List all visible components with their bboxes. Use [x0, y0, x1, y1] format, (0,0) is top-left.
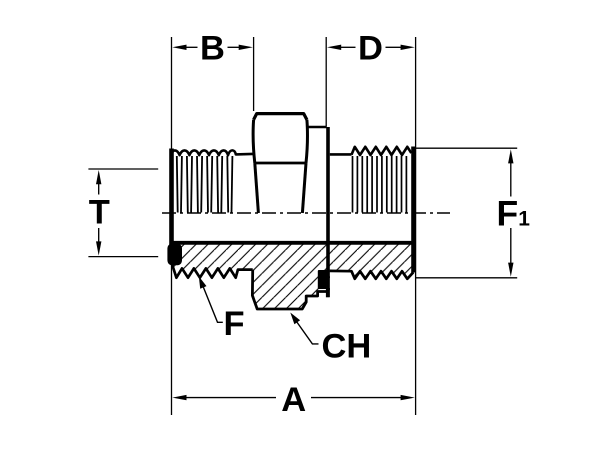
- right plain shank top: [330, 153, 352, 156]
- CH leader line: [294, 318, 319, 344]
- svg-text:A: A: [281, 381, 306, 419]
- left thread flank lines: [177, 156, 233, 213]
- svg-text:F: F: [224, 305, 245, 343]
- svg-text:B: B: [200, 30, 225, 68]
- bonded seal (black square, right): [318, 270, 330, 289]
- collar top line: [308, 126, 327, 129]
- T extension lines: [88, 168, 158, 170]
- o-ring seal (black blob, left face): [167, 244, 182, 266]
- arrow F1 bottom: [508, 263, 513, 277]
- arrow A left: [172, 395, 186, 400]
- hex left side edge: [253, 120, 255, 163]
- hex right side edge: [306, 120, 307, 163]
- left face line: [169, 149, 174, 246]
- section outline lower-right thread: [330, 271, 414, 279]
- right thread flank lines: [353, 156, 407, 213]
- arrow T bottom: [96, 241, 101, 255]
- section hatch region: [172, 243, 414, 309]
- collar right edge: [326, 127, 330, 297]
- arrow D right: [401, 45, 415, 50]
- extension line D left: [325, 37, 327, 126]
- hex lower-right flank: [302, 163, 306, 213]
- hex nut outline: [254, 114, 307, 120]
- extension line B right: [253, 37, 255, 111]
- arrow D left: [327, 45, 341, 50]
- hex lower-left flank: [255, 163, 259, 213]
- arrow B right: [239, 45, 253, 50]
- section outline hex dip (CH): [252, 270, 329, 309]
- arrow T top: [96, 170, 101, 184]
- extension line right (A/D): [415, 37, 417, 415]
- arrow A right: [401, 395, 415, 400]
- F leader line: [202, 283, 223, 323]
- CH leader arrow: [290, 313, 300, 325]
- arrow B left: [172, 45, 186, 50]
- dimension B line: [186, 46, 239, 48]
- F leader arrow: [199, 276, 207, 288]
- right face line: [411, 147, 415, 273]
- dimension T line: [98, 184, 100, 243]
- svg-text:T: T: [89, 194, 110, 232]
- dimension A line: [186, 397, 401, 399]
- left thread crest: [172, 150, 253, 155]
- right thread crest: [352, 147, 412, 155]
- hex mid line: [255, 162, 306, 165]
- F1 extension lines: [414, 147, 517, 149]
- dimension F1 line: [510, 163, 512, 264]
- dimension D line: [341, 46, 401, 48]
- bore line: [170, 241, 415, 245]
- section outline lower-left thread: [172, 261, 253, 278]
- svg-text:D: D: [358, 30, 383, 68]
- seal retaining tab: [326, 288, 330, 297]
- centerline: [162, 212, 450, 214]
- svg-text:CH: CH: [322, 328, 372, 366]
- arrow F1 top: [508, 149, 513, 163]
- extension line left (A/B): [171, 37, 173, 415]
